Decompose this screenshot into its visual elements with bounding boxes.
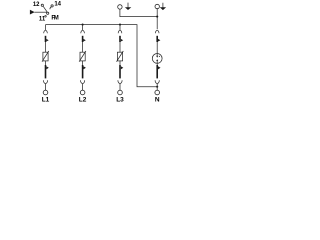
contact circle 14 [51, 5, 53, 7]
switch lever 11-12 [43, 6, 47, 12]
wire varistor to pin L3 [119, 61, 121, 65]
plug pin lower L2 [82, 65, 84, 78]
svg-text:L1: L1 [42, 97, 50, 104]
wire varistor to pin L1 [45, 61, 47, 65]
svg-text:L2: L2 [79, 97, 87, 104]
plug pin upper L2 [82, 36, 84, 42]
terminal circle N [155, 90, 160, 95]
branch L2 [79, 25, 87, 104]
main bus with corners down to N [46, 25, 157, 87]
terminal circle small after 11 [45, 16, 47, 18]
socket upper L1 [44, 25, 48, 34]
socket lower L3 [118, 80, 122, 90]
junction PE B / A tie [156, 16, 158, 18]
remote contact FM: arrow [30, 10, 35, 15]
wire pin to varistor L3 [119, 42, 121, 52]
wire PE A down and across to N line [120, 9, 157, 17]
svg-text:N: N [155, 97, 160, 104]
plug pin lower L1 [45, 65, 47, 78]
plug pin upper L3 [119, 36, 121, 42]
terminal circle L1 [43, 90, 48, 95]
svg-text:FM: FM [51, 15, 58, 21]
wire pin to varistor L2 [82, 42, 84, 52]
terminal circle L2 [80, 90, 85, 95]
svg-text:14: 14 [54, 1, 61, 7]
svg-text:11: 11 [39, 16, 46, 22]
plug pin lower N [156, 65, 158, 78]
plug pin lower L3 [119, 65, 121, 78]
contact 14 hook [50, 7, 52, 9]
disconnect flag lower L2 [83, 66, 86, 69]
disconnect flag lower L1 [46, 66, 49, 69]
wire pin to varistor L1 [45, 42, 47, 52]
branch N [152, 30, 162, 103]
socket lower L1 [43, 80, 47, 90]
disconnect flag upper L2 [83, 39, 85, 42]
contact circle 12 [41, 4, 43, 6]
plug pin upper N [156, 36, 158, 42]
wire from arrow to pivot 11 [35, 11, 47, 13]
terminal circle PE B [155, 4, 159, 8]
disconnect flag upper L1 [46, 39, 48, 42]
earth arrow A [125, 3, 131, 10]
plug pin upper L1 [45, 36, 47, 42]
earth arrow B [160, 3, 166, 10]
junction bus / L2 [82, 24, 84, 26]
junction bus tie / N [156, 86, 158, 88]
wire pin to spark gap N [156, 42, 158, 54]
socket lower L2 [81, 80, 85, 90]
svg-text:L3: L3 [116, 97, 124, 104]
disconnect flag upper N [158, 39, 160, 42]
spark gap N [152, 54, 162, 64]
terminal circle L3 [118, 90, 123, 95]
disconnect flag lower N [158, 66, 161, 69]
wire spark gap to pin N [156, 63, 158, 65]
disconnect flag lower L3 [121, 66, 124, 69]
branch L1 [42, 25, 50, 104]
junction bus / L3 [119, 24, 121, 26]
socket upper L3 [118, 25, 122, 34]
disconnect flag upper L3 [121, 39, 123, 42]
branch L3 [116, 25, 124, 104]
pivot contact circle 11 [47, 12, 49, 14]
svg-text:12: 12 [33, 2, 40, 8]
wire varistor to pin L2 [82, 61, 84, 65]
terminal circle PE A [118, 5, 122, 9]
wire PE B down to N branch [156, 9, 158, 30]
varistor L3 [117, 52, 122, 61]
socket upper N [155, 30, 159, 33]
varistor L2 [80, 52, 85, 61]
socket upper L2 [81, 25, 85, 34]
varistor L1 [43, 52, 48, 61]
socket lower N [155, 80, 159, 90]
